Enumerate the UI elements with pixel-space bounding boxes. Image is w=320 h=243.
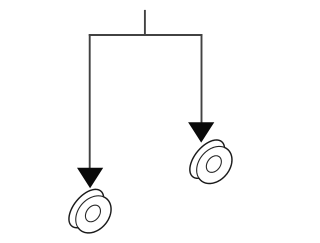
node: left ring (3D torus) xyxy=(69,189,111,233)
wire: horizontal branch bar xyxy=(89,34,203,36)
wire: right vertical drop xyxy=(201,34,203,140)
wire: left vertical drop xyxy=(89,34,91,185)
node: right ring (3D torus) xyxy=(190,140,232,184)
arrowhead: left connector xyxy=(77,168,103,189)
wire: top stub into junction xyxy=(144,10,146,35)
arrowhead: right connector xyxy=(188,122,214,142)
